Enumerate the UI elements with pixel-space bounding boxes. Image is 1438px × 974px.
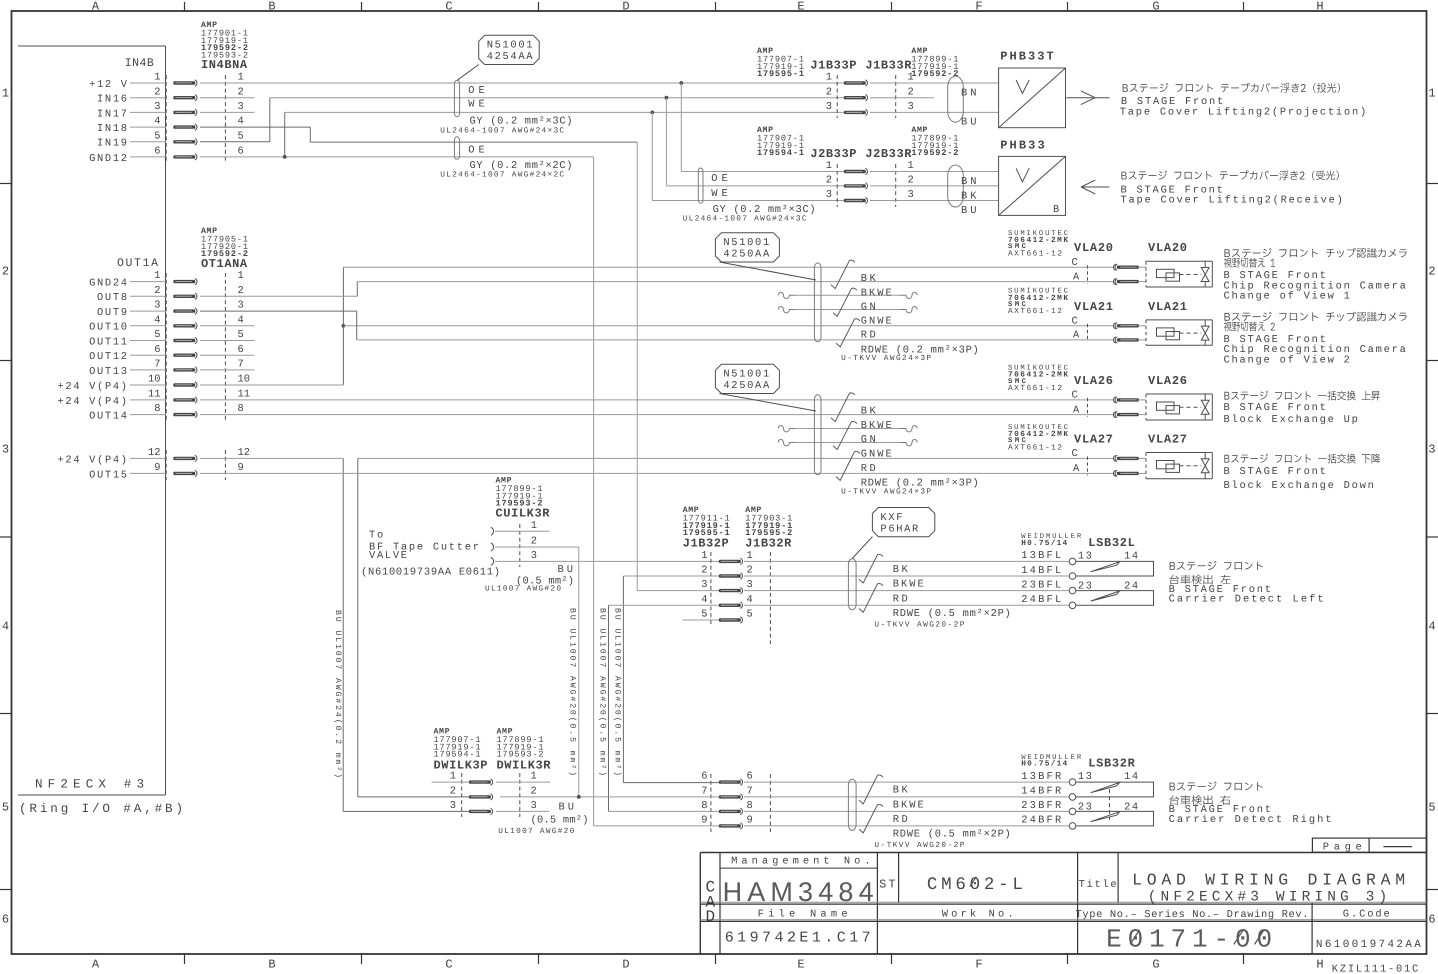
svg-text:23BFR: 23BFR bbox=[1021, 800, 1061, 812]
NF2ECX #3 unit boundary box bbox=[18, 45, 166, 47]
description JP carrier detect left bbox=[1169, 575, 1230, 585]
VLA27 valve body bbox=[1146, 452, 1212, 454]
svg-text:D: D bbox=[622, 958, 629, 972]
VLA21 A contact bbox=[1117, 338, 1139, 341]
J1B32P pin5 stub bbox=[683, 619, 719, 621]
description JP view change 2 bbox=[1224, 322, 1275, 332]
svg-text:1: 1 bbox=[531, 771, 537, 783]
svg-text:4254AA: 4254AA bbox=[487, 51, 534, 63]
LSB32L switch box 23-24 bbox=[1076, 591, 1154, 606]
IN4BNA left dashed boundary bbox=[165, 75, 167, 163]
CUILK3R pin1 stub bbox=[495, 530, 550, 532]
svg-text:4250AA: 4250AA bbox=[723, 380, 770, 392]
svg-text:A: A bbox=[1073, 463, 1080, 475]
twist marker pair GN/GNWE (lower) bbox=[833, 421, 857, 449]
svg-text:A: A bbox=[1073, 404, 1080, 416]
twist marker pair BK/BKWE bbox=[859, 554, 883, 583]
svg-text:2: 2 bbox=[238, 285, 244, 297]
wire cable2 GY vertical down to J1B32P pin9 bbox=[593, 157, 595, 826]
svg-text:VLA27: VLA27 bbox=[1074, 432, 1113, 446]
svg-text:VALVE: VALVE bbox=[369, 550, 407, 562]
LSB32R switch box 13-14 bbox=[1076, 782, 1154, 797]
VLA26 valve body bbox=[1146, 393, 1212, 395]
description JP B stage front (LSB32R) bbox=[1170, 781, 1263, 790]
svg-text:4: 4 bbox=[701, 594, 707, 606]
svg-text:OUT1A: OUT1A bbox=[117, 257, 158, 270]
twist marker pair RD/RDWE bbox=[836, 319, 860, 347]
svg-text:4: 4 bbox=[238, 116, 244, 128]
wire cable2 OE vertical down to J1B32P pin3 bbox=[636, 142, 638, 590]
svg-text:6: 6 bbox=[154, 344, 160, 356]
svg-text:179595-1: 179595-1 bbox=[757, 69, 804, 79]
svg-text:OUT13: OUT13 bbox=[89, 366, 127, 378]
svg-text:GY (0.2 mm²×3C): GY (0.2 mm²×3C) bbox=[713, 204, 816, 216]
branch to J2B33P pin3 bbox=[650, 111, 654, 115]
svg-text:13: 13 bbox=[1078, 771, 1092, 783]
svg-text:C: C bbox=[1072, 448, 1078, 460]
header underline divider bbox=[700, 920, 1426, 922]
wire IN16 stub bbox=[200, 97, 255, 99]
svg-text:1: 1 bbox=[450, 771, 456, 783]
svg-text:6: 6 bbox=[701, 771, 707, 783]
riser x357.8 down to DWILK3P pin2 bbox=[357, 458, 359, 797]
svg-text:14BFL: 14BFL bbox=[1021, 565, 1061, 577]
svg-text:1: 1 bbox=[908, 72, 914, 84]
svg-text:4: 4 bbox=[154, 314, 160, 326]
branch to J2B33P pin1 bbox=[679, 81, 683, 85]
svg-text:4: 4 bbox=[238, 314, 244, 326]
svg-text:+24 V(P4): +24 V(P4) bbox=[58, 381, 128, 393]
svg-text:BK: BK bbox=[861, 273, 877, 285]
svg-text:OUT15: OUT15 bbox=[89, 469, 127, 481]
VLA26 valve symbol bbox=[1201, 400, 1209, 414]
svg-text:2: 2 bbox=[908, 175, 914, 187]
svg-text:2: 2 bbox=[701, 565, 707, 577]
VLA20 coil symbol bbox=[1157, 269, 1175, 277]
svg-text:BK: BK bbox=[893, 564, 909, 576]
VLA27 C contact bbox=[1117, 457, 1139, 460]
svg-text:OUT9: OUT9 bbox=[97, 307, 127, 319]
svg-text:AXT661-12: AXT661-12 bbox=[1008, 307, 1062, 316]
svg-text:8: 8 bbox=[747, 800, 753, 812]
svg-text:PHB33: PHB33 bbox=[1000, 139, 1044, 153]
J2B33P dashed boundary bbox=[836, 164, 838, 207]
svg-text:GY (0.2 mm²×3C): GY (0.2 mm²×3C) bbox=[470, 116, 573, 128]
arrow emit (Projection) bbox=[1066, 97, 1109, 99]
slashed zero in CM602-L bbox=[970, 877, 977, 887]
svg-text:1: 1 bbox=[908, 160, 914, 172]
svg-text:2: 2 bbox=[450, 786, 456, 798]
svg-text:179592-2: 179592-2 bbox=[911, 148, 958, 158]
cable sheath marker UL2464 3C (J2B33) bbox=[698, 168, 703, 203]
svg-text:2: 2 bbox=[747, 565, 753, 577]
wire BK to VLA20 C bbox=[343, 266, 1113, 268]
svg-text:Tape Cover Lifting2(Receive): Tape Cover Lifting2(Receive) bbox=[1121, 194, 1343, 206]
svg-text:3: 3 bbox=[1428, 442, 1435, 456]
svg-text:5: 5 bbox=[238, 130, 244, 142]
svg-text:UL2464-1007 AWG#24×2C: UL2464-1007 AWG#24×2C bbox=[440, 171, 564, 180]
svg-text:B: B bbox=[268, 0, 275, 14]
svg-text:C: C bbox=[1072, 390, 1078, 402]
balloon leader bbox=[457, 65, 479, 81]
svg-text:2: 2 bbox=[2, 264, 9, 278]
CUILK3R pin2 BU wire down to DWILK3R pin2 bbox=[495, 546, 579, 548]
svg-text:E: E bbox=[797, 958, 804, 972]
svg-text:13BFL: 13BFL bbox=[1021, 550, 1061, 562]
wire BKWE to VLA20 A bbox=[357, 281, 1113, 283]
svg-text:LSB32R: LSB32R bbox=[1088, 757, 1135, 771]
cable sheath marker U-TKVV 2P (LSB32R) bbox=[848, 779, 856, 830]
divider CM602/Title bbox=[1077, 853, 1079, 955]
OT1ANA right dashed boundary upper bbox=[224, 273, 226, 421]
svg-text:BU UL1007 AWG#20(0.5 mm²): BU UL1007 AWG#20(0.5 mm²) bbox=[567, 608, 576, 776]
J1B33R dashed boundary bbox=[895, 75, 897, 118]
VLA27 A contact bbox=[1117, 472, 1139, 475]
svg-text:2: 2 bbox=[1428, 264, 1435, 278]
page dash bbox=[1383, 846, 1412, 848]
svg-text:6: 6 bbox=[2, 912, 9, 926]
svg-text:1: 1 bbox=[701, 550, 707, 562]
svg-text:A: A bbox=[92, 0, 100, 14]
svg-text:23BFL: 23BFL bbox=[1021, 579, 1061, 591]
description JP chip recognition camera 2 bbox=[1224, 312, 1406, 322]
svg-text:UL1007 AWG#20: UL1007 AWG#20 bbox=[485, 585, 561, 594]
junction +24V to GNWE bbox=[342, 324, 346, 328]
arrow receive bbox=[1081, 186, 1110, 188]
svg-text:Block Exchange Up: Block Exchange Up bbox=[1224, 414, 1358, 426]
LSB32R switch box 23-24 bbox=[1076, 811, 1154, 826]
svg-text:2: 2 bbox=[238, 86, 244, 98]
svg-text:9: 9 bbox=[154, 462, 160, 474]
svg-text:9: 9 bbox=[701, 815, 707, 827]
svg-text:OUT10: OUT10 bbox=[89, 322, 127, 334]
balloon leader (lower) bbox=[719, 394, 816, 412]
page box bbox=[1312, 838, 1426, 852]
svg-text:6: 6 bbox=[1428, 912, 1435, 926]
svg-text:4: 4 bbox=[154, 116, 160, 128]
svg-text:12: 12 bbox=[238, 447, 250, 459]
J1B32P dashed boundary upper bbox=[710, 552, 712, 626]
svg-text:2: 2 bbox=[531, 536, 537, 548]
svg-text:13: 13 bbox=[1078, 550, 1092, 562]
column tick marks top/bottom bbox=[184, 2, 186, 11]
wire +24V (pin12) down to DWILK3P pin3 bbox=[200, 457, 343, 459]
CUILK3R pin3 wire to J1B32P pin1 bbox=[495, 560, 719, 562]
wire IN18 to cable2 OE bbox=[200, 126, 310, 128]
twist marker pair BK/BKWE bbox=[859, 775, 883, 804]
cable sheath marker UL2464 2C bbox=[454, 137, 459, 160]
VLA27 coil symbol bbox=[1157, 461, 1175, 469]
svg-text:14BFR: 14BFR bbox=[1021, 786, 1061, 798]
svg-text:13BFR: 13BFR bbox=[1021, 771, 1061, 783]
svg-text:IN4B: IN4B bbox=[125, 57, 154, 70]
svg-text:Change of View 1: Change of View 1 bbox=[1224, 291, 1350, 303]
svg-text:3: 3 bbox=[450, 800, 456, 812]
svg-text:H0.75/14: H0.75/14 bbox=[1021, 539, 1067, 548]
jumper BU J1B32P pin2 to pin6 bbox=[623, 575, 718, 577]
svg-text:3: 3 bbox=[2, 442, 9, 456]
svg-text:U-TKVV AWG20-2P: U-TKVV AWG20-2P bbox=[874, 841, 964, 850]
svg-text:5: 5 bbox=[154, 130, 160, 142]
svg-text:3: 3 bbox=[531, 800, 537, 812]
description JP chip recognition camera 1 bbox=[1224, 248, 1406, 258]
svg-text:3: 3 bbox=[154, 300, 160, 312]
svg-text:5: 5 bbox=[154, 329, 160, 341]
svg-text:6: 6 bbox=[238, 146, 244, 158]
svg-text:KXF: KXF bbox=[880, 512, 902, 524]
svg-text:8: 8 bbox=[154, 403, 160, 415]
svg-text:J1B32R: J1B32R bbox=[745, 537, 792, 551]
svg-text:2: 2 bbox=[154, 86, 160, 98]
svg-text:11: 11 bbox=[148, 389, 160, 401]
wires J1B32R to terminals bbox=[744, 560, 1069, 562]
cable sheath marker U-TKVV 2P (LSB32L) bbox=[848, 559, 856, 610]
LSB32L switch blade 23-24 bbox=[1091, 591, 1120, 601]
svg-text:3: 3 bbox=[826, 189, 832, 201]
wires J2B33R to PHB33 bbox=[870, 171, 999, 173]
svg-text:Title: Title bbox=[1079, 879, 1117, 891]
svg-text:BU UL1007 AWG#24(0.2 mm²): BU UL1007 AWG#24(0.2 mm²) bbox=[333, 610, 342, 778]
OT1ANA right dashed boundary lower bbox=[224, 450, 226, 480]
svg-text:J2B33P: J2B33P bbox=[810, 147, 856, 161]
row tick marks left/right bbox=[0, 183, 12, 185]
svg-text:F: F bbox=[975, 958, 982, 972]
divider Title label bbox=[1117, 853, 1119, 904]
svg-text:GND24: GND24 bbox=[89, 278, 127, 290]
svg-text:1: 1 bbox=[238, 72, 244, 84]
svg-text:UL1007 AWG#20: UL1007 AWG#20 bbox=[498, 827, 574, 836]
svg-text:A: A bbox=[1073, 330, 1080, 342]
twist marker pair BK/BKWE (lower) bbox=[831, 393, 855, 422]
svg-text:4: 4 bbox=[747, 594, 753, 606]
svg-text:File Name: File Name bbox=[758, 909, 848, 921]
wire OUT15 (pin9) to VLA27 A bbox=[200, 472, 1114, 474]
divider under Management No. bbox=[720, 867, 877, 869]
J1B32R dashed boundary upper bbox=[769, 552, 771, 644]
svg-text:J2B33R: J2B33R bbox=[865, 147, 912, 161]
svg-text:6: 6 bbox=[747, 771, 753, 783]
description JP block exchange down bbox=[1224, 454, 1380, 464]
coiled unused wire GN (lower) bbox=[778, 426, 795, 432]
svg-text:IN17: IN17 bbox=[97, 108, 127, 120]
svg-text:4: 4 bbox=[2, 619, 9, 633]
VLA20 valve body bbox=[1146, 260, 1212, 262]
svg-text:VLA27: VLA27 bbox=[1148, 432, 1187, 446]
svg-text:3: 3 bbox=[908, 189, 914, 201]
wire GND12 / GY net bbox=[200, 156, 594, 158]
svg-text:CUILK3R: CUILK3R bbox=[496, 506, 551, 520]
wire GNWE to VLA21 C bbox=[343, 325, 1113, 327]
coiled unused wire GNWE (lower) bbox=[778, 440, 795, 446]
svg-text:1: 1 bbox=[2, 86, 9, 100]
VLA21 valve body bbox=[1146, 319, 1212, 321]
OUT11 stub bbox=[200, 340, 255, 342]
DWILK3P pin1 stub bbox=[432, 781, 469, 783]
PHB33T diagonal bbox=[999, 68, 1066, 128]
description JP B stage front (LSB32L) bbox=[1170, 561, 1263, 570]
J1B32R dashed boundary lower bbox=[769, 774, 771, 832]
svg-text:OUT11: OUT11 bbox=[89, 336, 127, 348]
svg-text:14: 14 bbox=[1124, 771, 1138, 783]
description JP tape cover lifting2 receive bbox=[1121, 170, 1338, 180]
svg-text:GND12: GND12 bbox=[89, 153, 127, 165]
svg-text:1: 1 bbox=[238, 270, 244, 282]
svg-text:D: D bbox=[622, 0, 629, 14]
svg-text:+24 V(P4): +24 V(P4) bbox=[58, 396, 128, 408]
svg-text:5: 5 bbox=[2, 800, 9, 814]
svg-text:7: 7 bbox=[238, 359, 244, 371]
svg-text:U-TKVV AWG20-2P: U-TKVV AWG20-2P bbox=[874, 621, 964, 630]
slashed zeros in E0171-00 bbox=[1130, 930, 1139, 945]
svg-text:VLA20: VLA20 bbox=[1074, 241, 1113, 255]
svg-text:LSB32L: LSB32L bbox=[1088, 536, 1135, 550]
VLA21 valve symbol bbox=[1201, 326, 1209, 340]
svg-text:3: 3 bbox=[826, 101, 832, 113]
svg-text:3: 3 bbox=[238, 300, 244, 312]
svg-text:1: 1 bbox=[1428, 86, 1435, 100]
svg-text:3: 3 bbox=[531, 550, 537, 562]
wires J1B32R to terminals bbox=[744, 781, 1069, 783]
OUT10 stub bbox=[200, 325, 255, 327]
svg-text:H: H bbox=[1316, 0, 1323, 14]
svg-text:10: 10 bbox=[148, 374, 160, 386]
svg-text:UL2464-1007 AWG#24×3C: UL2464-1007 AWG#24×3C bbox=[683, 215, 807, 224]
LSB32L terminal circles bbox=[1069, 558, 1076, 565]
svg-text:P6HAR: P6HAR bbox=[880, 523, 918, 535]
twist marker pair BK/BKWE bbox=[831, 260, 855, 288]
svg-text:IN4BNA: IN4BNA bbox=[201, 58, 248, 72]
twist marker pair RD/RDWE bbox=[859, 804, 883, 833]
svg-text:BU UL1007 AWG#20(0.5 mm²): BU UL1007 AWG#20(0.5 mm²) bbox=[612, 608, 621, 776]
svg-text:J1B32P: J1B32P bbox=[683, 537, 729, 551]
svg-text:7: 7 bbox=[154, 359, 160, 371]
svg-text:VLA21: VLA21 bbox=[1074, 300, 1113, 314]
svg-text:OUT8: OUT8 bbox=[97, 292, 127, 304]
balloon N51001 4250AA (lower) bbox=[715, 364, 779, 393]
VLA21 coil symbol bbox=[1157, 328, 1175, 336]
svg-text:AXT661-12: AXT661-12 bbox=[1008, 384, 1062, 393]
svg-text:3: 3 bbox=[238, 101, 244, 113]
wire IN17 stub bbox=[200, 111, 255, 113]
svg-text:G: G bbox=[1152, 958, 1159, 972]
divider Management/ST bbox=[876, 853, 878, 955]
wire OUT8 riser x357.3 bbox=[200, 295, 357, 297]
svg-text:3: 3 bbox=[908, 101, 914, 113]
wires J1B33R to PHB33T bbox=[870, 82, 999, 84]
cable sheath marker PHB33 bbox=[948, 165, 964, 207]
description JP carrier detect right bbox=[1169, 795, 1230, 805]
svg-text:4250AA: 4250AA bbox=[723, 249, 770, 261]
cable sheath marker U-TKVV 3P (VLA26/27) bbox=[814, 395, 821, 475]
svg-text:B: B bbox=[1053, 204, 1059, 216]
wire +24V riser x343.4 (pin10) bbox=[342, 267, 344, 385]
svg-text:AXT661-12: AXT661-12 bbox=[1008, 443, 1062, 452]
wire IN19 to cable1 WE bbox=[200, 141, 270, 143]
branch to J2B33P pin2 bbox=[665, 96, 669, 100]
PHB33 V mark bbox=[1016, 168, 1029, 182]
svg-text:KZIL111-01C: KZIL111-01C bbox=[1332, 964, 1419, 974]
svg-text:14: 14 bbox=[1124, 550, 1138, 562]
svg-text:1: 1 bbox=[826, 160, 832, 172]
LSB32R switch blade 13-14 bbox=[1091, 783, 1120, 793]
description JP view change 1 bbox=[1224, 258, 1275, 268]
DWILK3R dashed boundary bbox=[519, 773, 521, 817]
svg-text:DWILK3R: DWILK3R bbox=[497, 758, 552, 772]
LSB32R mechanical link dashed bbox=[1109, 789, 1111, 820]
wire +12V / OE net from IN4B pin1 to J1B33P pin1 bbox=[200, 82, 844, 84]
J2B33R dashed boundary bbox=[895, 164, 897, 207]
cable sheath marker UL2464 3C bbox=[454, 80, 459, 117]
junction BU at DWILK3R pin2 bbox=[577, 795, 581, 799]
divider TypeNo/GCode bbox=[1311, 903, 1313, 954]
svg-text:C: C bbox=[1072, 316, 1078, 328]
svg-text:1: 1 bbox=[826, 72, 832, 84]
wire RD VLA27 C from riser x357.8 bbox=[358, 457, 1114, 459]
svg-text:BK: BK bbox=[861, 406, 877, 418]
svg-text:A: A bbox=[1073, 271, 1080, 283]
VLA26 A contact bbox=[1117, 413, 1139, 416]
svg-text:To: To bbox=[369, 530, 383, 542]
svg-text:VLA21: VLA21 bbox=[1148, 300, 1187, 314]
cable sheath marker U-TKVV 3P (VLA20/21) bbox=[814, 263, 821, 342]
svg-text:Type No.– Series No.– Drawing: Type No.– Series No.– Drawing Rev. bbox=[1076, 909, 1309, 921]
svg-text:2: 2 bbox=[826, 86, 832, 98]
svg-text:1: 1 bbox=[531, 520, 537, 532]
svg-text:2: 2 bbox=[531, 786, 537, 798]
svg-text:6: 6 bbox=[154, 146, 160, 158]
svg-text:E: E bbox=[797, 0, 804, 14]
svg-text:BU UL1007 AWG#20(0.5 mm²): BU UL1007 AWG#20(0.5 mm²) bbox=[598, 608, 607, 776]
svg-text:VLA26: VLA26 bbox=[1074, 374, 1113, 388]
svg-text:2: 2 bbox=[826, 175, 832, 187]
coiled unused wire GNWE (upper) bbox=[778, 307, 795, 313]
LSB32R switch blade 23-24 bbox=[1091, 812, 1120, 822]
svg-text:U-TKVV AWG24×3P: U-TKVV AWG24×3P bbox=[841, 487, 931, 496]
OT1ANA left dashed boundary lower bbox=[165, 450, 167, 480]
svg-text:OUT12: OUT12 bbox=[89, 351, 127, 363]
svg-text:OT1ANA: OT1ANA bbox=[201, 257, 248, 271]
wire OUT14 (pin8) to VLA26 A bbox=[200, 414, 1114, 416]
VLA21 C contact bbox=[1117, 324, 1139, 327]
svg-text:Tape Cover Lifting2(Projection: Tape Cover Lifting2(Projection) bbox=[1120, 107, 1366, 119]
svg-text:H0.75/14: H0.75/14 bbox=[1021, 760, 1067, 769]
wire +24V (pin11) to VLA26 C bbox=[200, 399, 1114, 401]
divider ST/CM602 bbox=[898, 853, 900, 904]
DWILK3R pin3 stub bbox=[496, 810, 549, 812]
IN4BNA right dashed boundary bbox=[224, 75, 226, 163]
svg-text:5: 5 bbox=[701, 609, 707, 621]
header underline divider (upper) bbox=[700, 919, 1426, 921]
svg-text:H: H bbox=[1316, 958, 1323, 972]
CUILK3R pin 3 bbox=[491, 557, 494, 565]
svg-text:Change of View 2: Change of View 2 bbox=[1224, 354, 1350, 366]
svg-text:(0.5 mm²): (0.5 mm²) bbox=[531, 814, 589, 826]
svg-text:10: 10 bbox=[238, 374, 250, 386]
svg-text:8: 8 bbox=[701, 800, 707, 812]
mid horizontal divider (upper) bbox=[700, 901, 1426, 903]
svg-text:UL2464-1007 AWG#24×3C: UL2464-1007 AWG#24×3C bbox=[440, 126, 564, 135]
svg-text:F: F bbox=[975, 0, 982, 14]
J1B32P dashed boundary lower bbox=[710, 774, 712, 832]
balloon N51001 4254AA bbox=[479, 35, 540, 64]
svg-text:179594-1: 179594-1 bbox=[757, 148, 804, 158]
svg-text:2: 2 bbox=[908, 86, 914, 98]
svg-text:3: 3 bbox=[747, 579, 753, 591]
svg-text:C: C bbox=[445, 0, 452, 14]
svg-text:D: D bbox=[706, 908, 716, 926]
svg-text:9: 9 bbox=[747, 815, 753, 827]
OUT12 stub bbox=[200, 354, 255, 356]
